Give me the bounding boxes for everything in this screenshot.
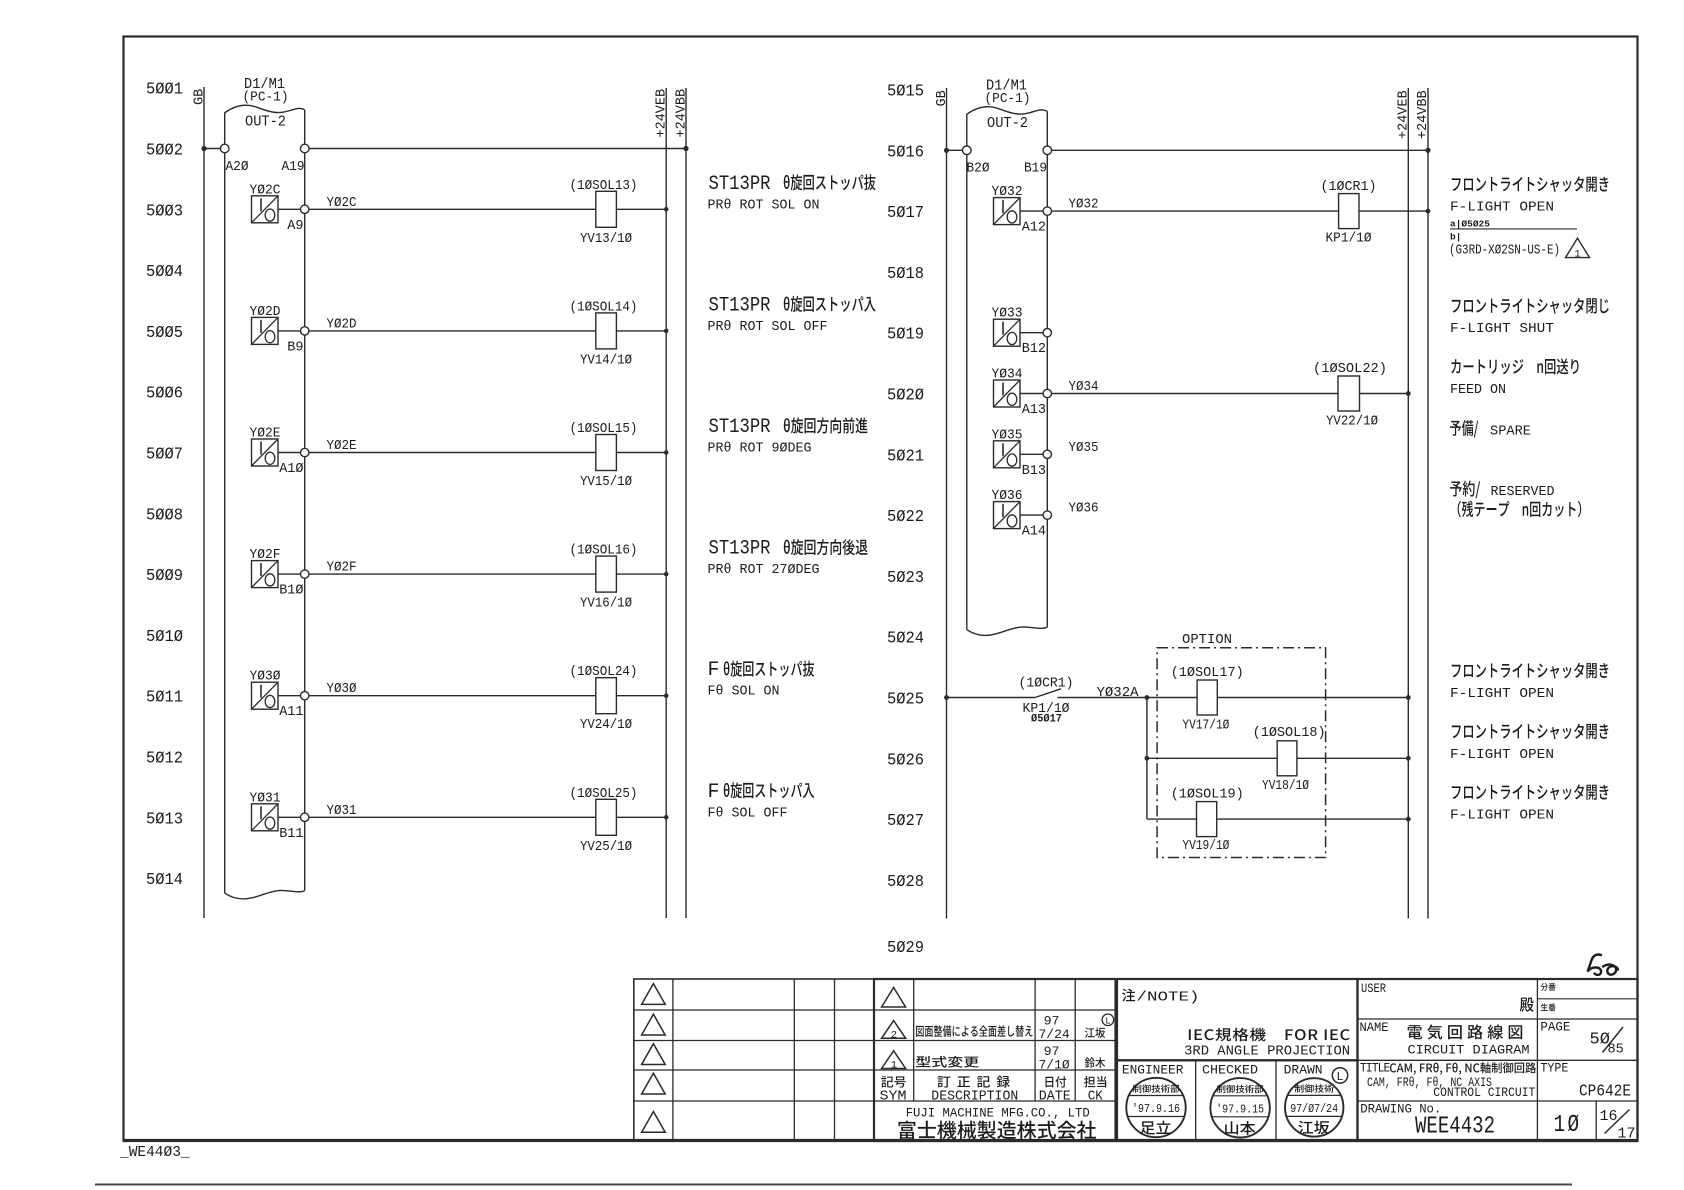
svg-text:a|Ø5Ø25: a|Ø5Ø25 [1450,219,1490,230]
svg-text:5Ø28: 5Ø28 [887,873,924,892]
svg-text:1Ø: 1Ø [1554,1112,1582,1139]
svg-text:85: 85 [1608,1043,1624,1058]
wire label YØ32 on rung 5017 [1069,198,1099,213]
connector section OUT-2 (left) [245,114,286,131]
svg-text:5ØØ5: 5ØØ5 [146,324,183,343]
svg-text:KP1/1Ø: KP1/1Ø [1326,231,1372,247]
svg-text:YØ34: YØ34 [992,367,1023,383]
wire rung 5020: pin A13 to coil [1052,393,1339,395]
revision triangle marker (left strip row 3) [642,1044,666,1065]
pin terminal circle B13 [1043,450,1051,458]
revision triangle marker (left strip row 5) [642,1112,666,1133]
type code CP642E [1579,1083,1631,1102]
NAME label [1360,1021,1389,1035]
PLC output contact YØ31 (I/O box) [252,804,279,831]
svg-text:PRθ ROT SOL ON: PRθ ROT SOL ON [708,197,820,213]
wire coil to +24VEB rung 5009 [616,573,666,575]
svg-text:97/Ø7/24: 97/Ø7/24 [1290,1103,1338,1116]
svg-text:CK: CK [1088,1090,1104,1105]
pin terminal circle A9 [301,205,309,213]
description rung 5027 line 2 [1450,808,1554,824]
svg-text:5Ø13: 5Ø13 [146,810,183,829]
revision triangle marker (left strip row 4) [642,1073,666,1094]
pin label A9 [287,219,303,234]
svg-text:F-LIGHT OPEN: F-LIGHT OPEN [1450,686,1554,702]
coil value YV18/10 [1262,778,1309,794]
label YØ2E above contact [250,426,281,442]
wire coil 10SOL19 to +24VEB [1217,818,1409,820]
svg-text:B2Ø: B2Ø [967,162,990,177]
wire label YØ2C on rung 5003 [327,196,357,211]
header DATE cell [1039,1076,1071,1104]
svg-text:(1ØSOL16): (1ØSOL16) [570,543,638,559]
svg-text:A11: A11 [279,705,303,720]
coil value YV17/10 [1182,718,1229,734]
wire coil to +24VEB rung 5003 [616,208,666,210]
svg-text:TITLE: TITLE [1360,1062,1390,1076]
svg-text:(1ØCR1): (1ØCR1) [1321,179,1377,195]
svg-text:ST13PR: ST13PR [709,173,771,196]
description rung 5025 line 1 [1452,663,1609,679]
wire branch to coil 10SOL19 [1147,818,1197,820]
svg-text:B1Ø: B1Ø [279,584,303,599]
wire relay coil to +24VBB [1359,210,1428,212]
svg-text:YV25/1Ø: YV25/1Ø [580,839,632,855]
svg-text:5Ø11: 5Ø11 [146,689,183,708]
revision row 1 triangle marker [882,988,906,1008]
svg-text:5Ø19: 5Ø19 [887,326,924,345]
revision marker triangle 2 [882,1021,906,1042]
description rung 5013 line 1 [708,781,815,804]
svg-text:B11: B11 [279,827,303,842]
sheet number 10 [1554,1112,1582,1139]
svg-text:YØ32: YØ32 [1069,198,1099,213]
PLC output contact YØ2E (I/O box) [252,439,279,466]
svg-text:/NOTE): /NOTE) [1137,990,1200,1006]
wire GB to pin A20 [204,148,220,150]
PLC output contact YØ35 (I/O box) [994,441,1021,468]
svg-text:F-LIGHT OPEN: F-LIGHT OPEN [1450,808,1554,824]
header CHECKED [1202,1063,1258,1078]
svg-text:ST13PR: ST13PR [709,538,771,561]
svg-text:YV22/1Ø: YV22/1Ø [1326,414,1378,430]
wire contact to pin circle rung 5009 [278,573,301,575]
svg-text:A13: A13 [1022,403,1046,418]
svg-text:5Ø1Ø: 5Ø1Ø [146,628,183,647]
annotation a|05025 [1450,219,1577,230]
solenoid coil (1ØSOL15) [596,435,617,471]
solenoid coil (10SOL19) [1197,802,1217,837]
net label GB (right) [935,90,950,106]
coil value YV25/1Ø [580,839,632,855]
pin terminal circle B11 [301,813,309,821]
drawing number WEE4432 [1415,1114,1495,1141]
svg-text:A9: A9 [287,219,303,234]
power rail +24VEB (right) [1407,88,1409,919]
svg-text:YØ2E: YØ2E [250,426,281,442]
svg-text:5Ø14: 5Ø14 [146,871,183,890]
svg-text:YØ3Ø: YØ3Ø [250,669,281,685]
revision 2 description [916,1025,1032,1037]
solenoid coil (1ØSOL14) [596,313,617,349]
svg-text:B9: B9 [287,340,303,355]
PLC output contact YØ2D (I/O box) [252,317,279,344]
pin B19 terminal circle [1043,146,1052,155]
solenoid coil (1ØSOL24) [596,678,617,714]
wire rung 5005: pin to coil [309,330,596,332]
net label Y032A [1097,686,1140,701]
pin label B20 [967,162,990,177]
svg-text:B19: B19 [1024,162,1047,177]
description rung 5009 line 2 [708,562,820,578]
svg-text:GB: GB [935,90,950,106]
junction on GB at rung 5016 [944,148,949,153]
contact reference KP1/10 [1023,701,1070,717]
svg-text:YV17/1Ø: YV17/1Ø [1182,718,1229,734]
svg-text:YV14/1Ø: YV14/1Ø [580,352,632,368]
NOTE box [1117,979,1358,1060]
coil designator (1ØSOL15) [570,421,638,437]
drawing name CIRCUIT DIAGRAM [1408,1043,1530,1058]
wire rung 5003: pin to coil [309,208,596,210]
description rung 5026 line 1 [1452,724,1609,740]
handwritten page mark 50 [1588,954,1619,974]
label YØ33 above contact [992,306,1023,322]
relay contact 10CR1 (NO contact blade) [1035,689,1061,698]
connector name D1/M1 (right) [985,78,1031,108]
revision marker triangle 1 [882,1051,906,1072]
rung number column (left half) [146,81,183,890]
label YØ2C above contact [250,182,281,198]
svg-text:FEED ON: FEED ON [1450,382,1506,398]
svg-text:YV16/1Ø: YV16/1Ø [580,596,632,612]
svg-text:B12: B12 [1022,342,1046,357]
description rung 5019 line 2 [1450,321,1554,337]
solenoid coil (10SOL18) [1277,741,1297,776]
USER cell [1361,982,1386,996]
svg-text:Ø5Ø17: Ø5Ø17 [1031,714,1062,726]
svg-text:CHECKED: CHECKED [1202,1063,1258,1078]
wire coil to +24VEB rung 5020 [1360,393,1409,395]
svg-text:PRθ ROT 9ØDEG: PRθ ROT 9ØDEG [708,441,812,457]
svg-text:(1ØSOL14): (1ØSOL14) [570,299,638,315]
header DRAWN [1284,1063,1323,1078]
contact designator (10CR1) [1019,676,1074,692]
svg-text:YØ35: YØ35 [992,427,1023,443]
svg-text:YØ2C: YØ2C [327,196,357,211]
title text line 3 [1433,1085,1535,1100]
title block right section grid [1358,979,1638,1141]
description rung 5017 line 1 [1452,176,1609,192]
company name (kanji) [898,1121,1096,1140]
pin label A13 [1022,403,1046,418]
svg-text:YØ3Ø: YØ3Ø [327,682,357,697]
svg-text:16: 16 [1600,1108,1618,1125]
wire label YØ36 on rung 5022 [1069,502,1099,517]
sheet code _WE4403_ [119,1145,190,1161]
wire contact to pin circle rung 5011 [278,695,301,697]
junction on +24VBB at rung 5016 [1425,148,1430,153]
label YØ34 above contact [992,367,1023,383]
svg-text:+24VBB: +24VBB [674,89,689,138]
junction node Y032A [1145,695,1150,700]
net label GB (left) [193,89,208,105]
description rung 5011 line 1 [708,659,815,682]
svg-text:B13: B13 [1022,464,1046,479]
circled L mark (revision 2) [1102,1014,1114,1027]
solenoid coil (1ØSOL25) [596,799,617,835]
svg-text:YØ35: YØ35 [1069,441,1099,456]
svg-text:5Ø22: 5Ø22 [887,508,924,527]
svg-text:5Ø12: 5Ø12 [146,750,183,769]
pin label A12 [1022,221,1046,236]
net label +24VEB (left) [655,89,670,138]
coil value YV15/1Ø [580,474,632,490]
svg-text:A1Ø: A1Ø [279,462,303,477]
circled L mark (drawn) [1332,1068,1347,1084]
title text line 1 (CAM FR theta NC axis control circuit) [1390,1062,1536,1075]
solenoid coil (1ØSOL13) [596,191,617,227]
pin label A20 [226,160,249,175]
junction on +24VEB rung 5013 [664,815,669,820]
description rung 5005 line 1 [709,294,876,317]
drawing name (denki kairo senzu) [1408,1024,1523,1039]
pin label B19 [1024,162,1047,177]
ground bus GB (right) [946,88,948,919]
coil value YV14/1Ø [580,352,632,368]
description rung 5022 line 1 (reserved) [1450,481,1554,501]
signature row grid [1117,1060,1358,1141]
coil value YV22/10 [1326,414,1378,430]
revision 2 signer (Esaka) [1085,1027,1105,1038]
svg-text:(1ØSOL15): (1ØSOL15) [570,421,638,437]
PLC output contact YØ2C (I/O box) [252,196,279,223]
coil designator (1ØSOL16) [570,543,638,559]
svg-text:(1ØSOL17): (1ØSOL17) [1171,665,1244,681]
branch wire down from Y032A to rung 5027 [1146,698,1148,820]
junction on GB at rung 5025 [944,695,949,700]
wire GB to pin B20 [947,149,963,151]
svg-text:5Ø2Ø: 5Ø2Ø [887,387,924,406]
coil designator (1ØSOL14) [570,299,638,315]
header ENGINEER [1122,1063,1184,1078]
connector D1/M1 (PC-1) OUT-2 (left), body outline with torn-edge waves [225,105,305,899]
TYPE label [1540,1062,1568,1076]
wire coil to +24VEB rung 5005 [616,330,666,332]
svg-text:'97.9.16: '97.9.16 [1132,1103,1180,1116]
TITLE label [1360,1062,1390,1076]
wire contact to pin circle rung 5007 [278,452,301,454]
junction on +24VEB rung 5025 [1406,695,1411,700]
svg-text:ST13PR: ST13PR [709,294,771,317]
svg-text:5Ø23: 5Ø23 [887,569,924,588]
coil value YV24/1Ø [580,717,632,733]
description rung 5020 line 1 [1451,358,1578,374]
junction on +24VEB rung 5011 [664,693,669,698]
company name FUJI MACHINE MFG.CO., LTD [906,1106,1090,1121]
pin terminal circle A14 [1043,511,1051,519]
svg-text:(1ØSOL24): (1ØSOL24) [570,664,638,680]
svg-text:WEE4432: WEE4432 [1415,1114,1495,1141]
wire coil to +24VEB rung 5013 [616,816,666,818]
PLC output contact YØ36 (I/O box) [994,502,1021,529]
DRAWING No. label [1360,1102,1441,1117]
pin B20 terminal circle [963,146,972,155]
description rung 5025 line 2 [1450,686,1554,702]
rung number column (right half) [887,83,924,959]
label YØ2F above contact [250,547,281,563]
svg-text:YØ2F: YØ2F [250,547,281,563]
svg-text:'97.9.15: '97.9.15 [1216,1103,1264,1116]
svg-text:5Ø21: 5Ø21 [887,447,924,466]
svg-text:CONTROL CIRCUIT: CONTROL CIRCUIT [1433,1085,1535,1100]
wire contact to node Y032A [1058,697,1147,699]
junction on +24VEB rung 5005 [664,329,669,334]
coil designator (10CR1) [1321,179,1377,195]
pin label A14 [1022,525,1046,540]
description rung 5007 line 1 [709,416,868,439]
revision triangle marker (left strip row 1) [642,984,666,1005]
pin label A19 [282,160,305,175]
svg-text:F: F [708,781,720,804]
svg-text:(G3RD-XØ2SN-US-E): (G3RD-XØ2SN-US-E) [1449,243,1560,259]
svg-text:7/1Ø: 7/1Ø [1039,1057,1070,1072]
IEC note line 2 [1184,1044,1350,1060]
svg-text:(1ØCR1): (1ØCR1) [1019,676,1074,692]
wire rung 5025: GB to contact 10CR1 [947,697,1036,699]
svg-text:YØ36: YØ36 [1069,502,1099,517]
svg-text:(PC-1): (PC-1) [985,91,1031,107]
svg-text:5Ø25: 5Ø25 [887,691,924,710]
revision 1 description (model change) [916,1056,979,1068]
svg-text:2: 2 [891,1029,897,1041]
PLC output contact YØ34 (I/O box) [994,380,1021,407]
description rung 5011 line 2 [708,684,780,700]
svg-text:YØ33: YØ33 [992,306,1023,322]
svg-text:DRAWN: DRAWN [1284,1063,1323,1078]
NOTE label [1122,989,1199,1006]
wire contact to pin circle rung 5017 [1020,210,1043,212]
svg-text:YØ31: YØ31 [250,790,281,806]
svg-text:5ØØ9: 5ØØ9 [146,567,183,586]
net label +24VBB (right) [1416,90,1431,139]
svg-text:3RD ANGLE PROJECTION: 3RD ANGLE PROJECTION [1184,1044,1350,1060]
description rung 5005 line 2 [708,319,828,335]
svg-text:(PC-1): (PC-1) [243,90,289,106]
wire rung 5007: pin to coil [309,452,596,454]
wire contact to pin circle rung 5022 [1020,514,1043,516]
wire contact to pin circle rung 5005 [278,330,301,332]
approval stamp CHECKED (Yamamoto 97.9.15) [1210,1078,1269,1137]
svg-text:5Ø17: 5Ø17 [887,204,924,223]
svg-text:5Ø29: 5Ø29 [887,939,924,958]
svg-text:+24VEB: +24VEB [655,89,670,138]
svg-text:PRθ ROT SOL OFF: PRθ ROT SOL OFF [708,319,828,335]
svg-text:YØ2D: YØ2D [250,304,281,320]
svg-text:A2Ø: A2Ø [226,160,249,175]
svg-text:YØ2F: YØ2F [327,561,357,576]
svg-text:CIRCUIT DIAGRAM: CIRCUIT DIAGRAM [1408,1043,1530,1058]
svg-text:YØ2C: YØ2C [250,182,281,198]
wire rung 5017: pin A12 to relay coil [1052,210,1339,212]
wire label YØ34 on rung 5020 [1069,380,1099,395]
svg-text:NAME: NAME [1360,1021,1389,1035]
svg-text:ENGINEER: ENGINEER [1122,1063,1184,1078]
wire Y032A to coil 10SOL17 [1147,697,1197,699]
svg-text:7/24: 7/24 [1039,1027,1070,1042]
svg-text:A12: A12 [1022,221,1046,236]
coil designator (1ØSOL25) [570,786,638,802]
pin terminal circle B12 [1043,329,1051,337]
pin terminal circle A1Ø [301,448,309,456]
power rail +24VBB (right) [1427,88,1429,919]
pin label A11 [279,705,303,720]
label YØ36 above contact [992,488,1023,504]
svg-text:A19: A19 [282,160,305,175]
annotation b| [1450,232,1461,243]
solenoid coil (1ØSOL16) [596,556,617,592]
description rung 5019 line 1 [1452,298,1609,314]
wire coil to +24VEB rung 5007 [616,452,666,454]
svg-text:1: 1 [891,1060,897,1072]
svg-text:PRθ ROT 27ØDEG: PRθ ROT 27ØDEG [708,562,820,578]
ground bus GB (left) [203,87,205,918]
svg-text:OUT-2: OUT-2 [245,114,286,131]
pin label B12 [1022,342,1046,357]
description rung 5022 line 2 [1458,501,1582,517]
approval stamp DRAWN (Esaka 97/07/24) [1285,1078,1343,1136]
junction on +24VEB rung 5003 [664,207,669,212]
svg-text:5Ø24: 5Ø24 [887,630,924,649]
description rung 5003 line 2 [708,197,820,213]
svg-text:5ØØ6: 5ØØ6 [146,385,183,404]
junction on +24VBB rung 5017 [1426,209,1431,214]
svg-text:F-LIGHT SHUT: F-LIGHT SHUT [1450,321,1554,337]
svg-text:F-LIGHT OPEN: F-LIGHT OPEN [1450,747,1554,763]
pin terminal circle A11 [301,692,309,700]
svg-text:YV15/1Ø: YV15/1Ø [580,474,632,490]
svg-text:DATE: DATE [1039,1090,1071,1105]
description rung 5027 line 1 [1452,784,1609,800]
svg-text:(1ØSOL18): (1ØSOL18) [1253,725,1326,741]
svg-text:RESERVED: RESERVED [1491,484,1555,500]
svg-text:F: F [708,659,720,682]
pin label B13 [1022,464,1046,479]
junction on +24VEB rung 5026 [1406,756,1411,761]
junction on +24VEB rung 5027 [1406,817,1411,822]
header CK cell [1084,1076,1106,1105]
junction on +24VEB rung 5020 [1406,391,1411,396]
svg-text:Fθ SOL OFF: Fθ SOL OFF [708,805,788,821]
label YØ31 above contact [250,790,281,806]
svg-text:SPARE: SPARE [1490,423,1531,439]
junction on +24VEB rung 5009 [664,572,669,577]
connector D1/M1 (PC-1) OUT-2 (right), body outline with torn-edge waves [967,107,1048,636]
wire rung 5009: pin to coil [309,573,596,575]
coil designator (10SOL22) [1313,361,1387,377]
svg-text:USER: USER [1361,982,1386,996]
svg-text:5ØØ8: 5ØØ8 [146,506,183,525]
OPTION label [1182,632,1232,648]
revision 2 date [1039,1014,1070,1042]
header DESCRIPTION cell [931,1076,1018,1105]
wire rung 5011: pin to coil [309,695,596,697]
connector section OUT-2 (right) [987,115,1028,132]
revision strip table (left, empty) [634,979,874,1141]
header SYM cell [880,1076,907,1104]
svg-text:DESCRIPTION: DESCRIPTION [931,1090,1018,1105]
svg-text:L: L [1336,1070,1343,1084]
